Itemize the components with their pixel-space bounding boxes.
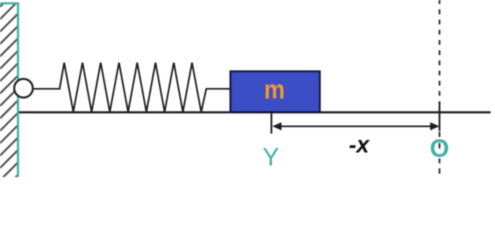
- ground line: [19, 111, 491, 113]
- dash below O second: [439, 168, 441, 173]
- left arrowhead: [272, 122, 281, 130]
- mass block m: [230, 71, 319, 112]
- left tick at Y: [270, 111, 272, 134]
- svg-text:Y: Y: [262, 144, 279, 172]
- svg-text:O: O: [430, 135, 449, 163]
- svg-text:-x: -x: [349, 132, 371, 158]
- svg-text:m: m: [264, 75, 285, 105]
- dash below O: [439, 158, 441, 163]
- wall teal top border: [0, 2, 19, 4]
- measurement arrow between Y and O: [276, 125, 436, 127]
- right tick at O: [439, 103, 441, 131]
- spring (lead + zigzag + lead): [33, 63, 231, 112]
- dashed vertical line at O (upper part): [439, 0, 441, 104]
- dashed line segment below tick: [439, 132, 441, 137]
- wall hatching: [0, 0, 19, 193]
- right arrowhead: [430, 122, 439, 130]
- dash inside O counter: [439, 143, 441, 149]
- spring anchor circle: [14, 79, 33, 98]
- wall teal right border: [17, 3, 19, 178]
